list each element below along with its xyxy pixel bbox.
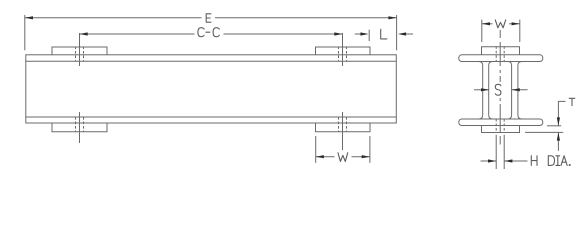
- arrowhead W side left: [316, 155, 324, 158]
- label S: [495, 84, 501, 95]
- plate inner top line: [26, 60, 397, 62]
- label T: [569, 98, 575, 105]
- arrowhead L left: [360, 32, 368, 35]
- end view right sidebar inner line with fillets: [508, 62, 512, 120]
- dimension W (end) extension lines: [481, 20, 483, 42]
- right pin centerline: [342, 33, 344, 66]
- arrowhead W side right: [362, 155, 370, 158]
- dimension T extension lines: [547, 125, 561, 127]
- arrowhead T up: [557, 132, 560, 140]
- end view bottom bar (plate edge): [459, 119, 543, 126]
- dimension E line: [25, 17, 202, 19]
- dimension W (end) arrow leads: [482, 23, 493, 25]
- end view left sidebar inner line with fillets: [489, 62, 493, 120]
- end view hidden hole lines (dashed): [496, 46, 504, 132]
- end view top bar (plate edge): [459, 55, 543, 62]
- dimension E extension lines: [24, 15, 26, 50]
- end view left sidebar outer line with fillets: [479, 62, 483, 120]
- arrowhead W end right: [512, 22, 520, 25]
- label period of DIA.: [568, 164, 571, 167]
- label I of DIA.: [556, 156, 560, 166]
- dimension H extension lines: [495, 135, 497, 169]
- arrowhead E left: [25, 16, 33, 19]
- end view centerline: [499, 30, 501, 38]
- label W side: [338, 153, 348, 162]
- right pin top block: [316, 47, 371, 55]
- end view right sidebar outer line with fillets: [518, 62, 522, 120]
- left pin bottom block: [52, 123, 107, 132]
- left pin hidden hole lines (dashed): [76, 47, 84, 133]
- arrowhead L right: [398, 32, 406, 35]
- dimension W (side) extension lines: [315, 136, 317, 163]
- plate inner bottom line: [26, 116, 397, 118]
- right pin bottom block: [316, 123, 371, 132]
- dimension L right arrow lead: [404, 33, 413, 35]
- arrowhead E right: [388, 16, 396, 19]
- label H: [531, 156, 537, 166]
- label E: [206, 14, 211, 22]
- dimension L tick: [368, 30, 370, 41]
- left pin top block: [52, 47, 107, 55]
- label A of DIA.: [561, 156, 567, 166]
- arrowhead S left: [481, 88, 489, 91]
- arrowhead H left: [488, 159, 496, 162]
- arrowhead H right: [504, 159, 512, 162]
- end view bottom tab (pin end): [482, 126, 520, 133]
- side view plate outline: [26, 55, 397, 123]
- arrowhead C-C left: [80, 32, 88, 35]
- label C-C: [198, 28, 204, 37]
- left pin centerline: [79, 33, 81, 66]
- dimension W (side) line: [316, 156, 335, 158]
- dimension T leader: [558, 101, 565, 125]
- end view top tab (pin end): [482, 47, 520, 55]
- right pin hidden hole lines (dashed): [339, 47, 347, 133]
- dimension L left arrow lead: [355, 33, 362, 35]
- dimension H arrow leads: [481, 160, 497, 162]
- arrowhead T down: [557, 117, 560, 125]
- label L: [381, 29, 387, 39]
- label D of DIA.: [548, 156, 554, 166]
- dimension S arrow leads: [474, 89, 489, 91]
- arrowhead S right: [512, 88, 520, 91]
- arrowhead W end left: [482, 22, 490, 25]
- label W end: [495, 20, 505, 28]
- dimension C-C line: [80, 33, 195, 35]
- arrowhead C-C right: [334, 32, 342, 35]
